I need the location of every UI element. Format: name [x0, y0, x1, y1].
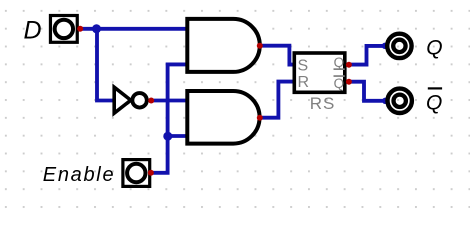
svg-text:D: D [24, 17, 42, 45]
svg-text:R: R [298, 74, 310, 91]
svg-text:Q: Q [334, 55, 345, 70]
svg-text:Enable: Enable [43, 164, 115, 186]
svg-text:Q: Q [426, 92, 442, 115]
svg-text:S: S [298, 58, 309, 75]
svg-text:Q: Q [334, 76, 345, 91]
svg-text:RS: RS [310, 94, 336, 113]
svg-text:Q: Q [426, 36, 442, 59]
